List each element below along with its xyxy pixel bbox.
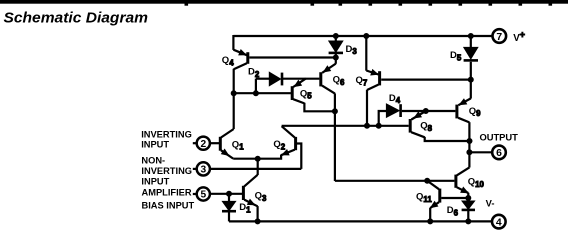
wire: V+ top rail <box>233 35 492 37</box>
transistor Q6 (PNP) <box>319 72 322 86</box>
svg-text:D4: D4 <box>389 93 401 105</box>
svg-text:2: 2 <box>200 139 206 150</box>
svg-text:V+: V+ <box>513 30 525 45</box>
pin 2 stub <box>193 142 197 144</box>
node: output / pin 6 <box>467 150 472 155</box>
transistor Q9 (PNP) <box>470 80 472 99</box>
svg-text:Q5: Q5 <box>300 88 312 100</box>
svg-text:Q8: Q8 <box>420 121 432 133</box>
node: D5 cathode / Q7 base / Q9 emitter <box>468 77 473 82</box>
node: Q8 emitter / output vertical <box>467 139 472 144</box>
transistor Q10 (NPN) <box>468 152 470 167</box>
wire: D4 cathode to Q9 base <box>402 110 456 112</box>
svg-text:Q4: Q4 <box>222 55 234 67</box>
wire: Q10 base line from Q6 collector <box>335 180 455 182</box>
pin 2 <box>197 137 210 150</box>
svg-text:BIAS INPUT: BIAS INPUT <box>142 200 195 210</box>
pin 5 <box>197 187 210 200</box>
svg-text:4: 4 <box>496 217 502 228</box>
svg-text:INPUT: INPUT <box>141 140 169 150</box>
wire: Q9 collector to output <box>468 122 470 141</box>
svg-text:Q3: Q3 <box>255 191 267 203</box>
svg-text:D3: D3 <box>346 44 358 56</box>
wire: D2 anode drop <box>255 79 257 94</box>
wire: D2 cathode to Q6 base <box>283 78 320 80</box>
node: D4 / Q8 collector junction <box>423 109 428 114</box>
node: diff pair emitters <box>255 156 260 161</box>
node: Q5.c / Q6.c junction <box>332 109 337 114</box>
node: Q4.c / D2.a / Q5.b junction <box>231 91 236 96</box>
diode D3 <box>333 34 338 39</box>
transistor Q3 (NPN) <box>244 175 257 187</box>
svg-text:Q7: Q7 <box>356 75 368 87</box>
svg-text:V-: V- <box>486 198 495 209</box>
pin 3 <box>197 162 210 175</box>
pin 4 <box>492 215 506 229</box>
wire: Q4 base to D3 node <box>249 56 335 58</box>
wire: Q2 base <box>297 144 302 169</box>
wire: Q2 collector line to Q8 base <box>282 125 409 127</box>
diode D2 <box>256 78 270 80</box>
wire: Q7 base to D5 node <box>381 78 471 80</box>
node: Q10 emitter / Q11 base / D6 anode <box>466 196 471 201</box>
node: D2 anode tap <box>253 91 258 96</box>
wire: pin 6 lead <box>469 151 492 153</box>
wire: Q4 collector / Q1 collector vertical <box>233 69 235 129</box>
diode D6 <box>467 198 469 201</box>
transistor Q7 (PNP) <box>365 36 367 71</box>
svg-text:Q10: Q10 <box>468 177 485 189</box>
diode D5 <box>470 36 472 48</box>
wire: V- bottom rail <box>229 220 492 222</box>
wire: Q6 collector vertical down to Q10 base line <box>334 93 336 181</box>
wire: Q7 collector vertical <box>366 90 368 126</box>
pin 7 <box>493 29 507 43</box>
transistor Q11 (NPN) <box>438 189 441 203</box>
transistor Q2 (NPN) <box>294 137 297 150</box>
wire: Q4 emitter riser <box>232 35 234 50</box>
node: Q11 collector junction <box>425 178 430 183</box>
pin 5 stub <box>193 193 197 195</box>
wire: output vertical <box>468 141 470 152</box>
svg-text:6: 6 <box>496 148 502 159</box>
transistor Q5 (PNP) <box>291 86 294 100</box>
node: Q7 collector junction <box>365 123 370 128</box>
svg-text:Q1: Q1 <box>232 139 244 151</box>
wire: tail down to Q3 <box>257 159 259 175</box>
svg-text:INPUT: INPUT <box>141 176 169 186</box>
svg-text:INVERTING: INVERTING <box>141 166 192 176</box>
node: D3 cathode / Q4 base / Q6 emitter <box>333 55 338 60</box>
transistor Q8 (PNP) <box>409 119 412 133</box>
node: Q3 emitter on rail <box>255 219 260 224</box>
svg-text:INVERTING: INVERTING <box>141 129 192 139</box>
node: D6 cathode on rail <box>466 219 471 224</box>
svg-text:OUTPUT: OUTPUT <box>480 131 519 142</box>
wire: Q8 emitter to output node <box>425 137 470 141</box>
svg-text:D6: D6 <box>447 205 459 217</box>
wire: Q10 emitter to D6 node <box>467 193 469 198</box>
svg-text:AMPLIFIER: AMPLIFIER <box>142 188 192 198</box>
svg-text:NON-: NON- <box>141 155 165 165</box>
svg-text:Q6: Q6 <box>333 74 345 86</box>
svg-text:Q11: Q11 <box>416 192 432 204</box>
node: Q11 emitter on rail <box>428 219 433 224</box>
svg-text:D2: D2 <box>248 66 260 78</box>
svg-text:Q9: Q9 <box>469 106 481 118</box>
svg-text:Schematic Diagram: Schematic Diagram <box>4 10 149 27</box>
diode D4 <box>379 111 387 126</box>
wire: Q5 collector to Q6 collector line <box>304 103 335 112</box>
svg-text:D5: D5 <box>450 50 462 62</box>
diode D1 <box>228 194 230 202</box>
svg-text:3: 3 <box>200 165 206 176</box>
node: D1 anode tap <box>227 191 232 196</box>
wire: pin 5 line / Q3 base <box>210 193 242 195</box>
transistor Q1 (NPN) <box>219 137 222 151</box>
pin 6 <box>492 146 506 160</box>
transistor Q4 (PNP) <box>246 52 249 64</box>
node: top rail / D5 <box>468 34 473 39</box>
svg-text:7: 7 <box>496 32 502 43</box>
node: top rail / Q7 emitter <box>364 34 369 39</box>
svg-text:5: 5 <box>200 190 206 201</box>
pin 3 stub <box>193 168 197 170</box>
wire: pin 3 line <box>210 168 301 170</box>
node: D4 anode junction <box>376 123 381 128</box>
top rule (table bottom border) <box>0 0 568 3</box>
wire: mirror base line to Q5 <box>234 92 291 94</box>
svg-text:Q2: Q2 <box>273 139 285 151</box>
